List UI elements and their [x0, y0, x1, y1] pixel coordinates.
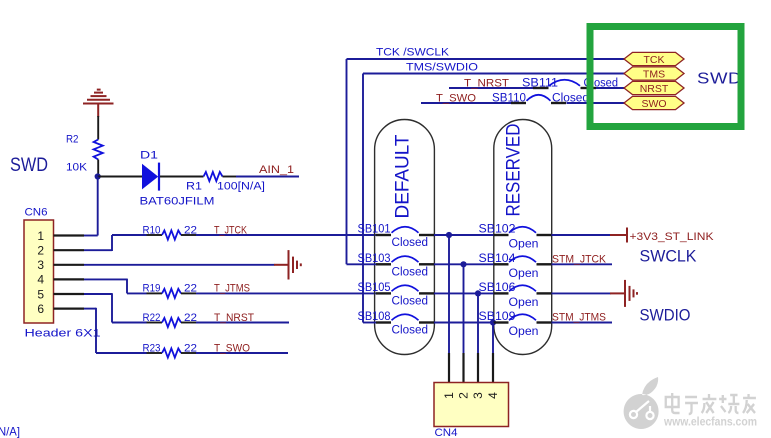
wire TMS/SWDIO riser down to SB108 line — [362, 74, 364, 323]
wire TCK/SWCLK riser down to SB103 line — [346, 59, 348, 264]
svg-text:SB103: SB103 — [358, 253, 391, 265]
svg-text:T_NRST: T_NRST — [464, 77, 509, 89]
wire line4 between bridges — [434, 322, 494, 324]
svg-text:STM_JTMS: STM_JTMS — [552, 312, 606, 324]
svg-text:4: 4 — [37, 273, 44, 287]
wire net TMS/SWDIO horizontal — [363, 73, 626, 75]
wire net AIN_1 — [236, 176, 299, 178]
pin 2 stub of CN6 — [54, 249, 85, 251]
svg-text:SWDIO: SWDIO — [640, 306, 691, 325]
svg-text:R10: R10 — [143, 224, 161, 236]
svg-text:22: 22 — [184, 224, 197, 236]
svg-text:Closed: Closed — [392, 237, 429, 249]
svg-text:SWD: SWD — [10, 154, 48, 176]
resistor R10 lead left — [147, 234, 163, 236]
wire net T_NRST top right — [596, 87, 627, 89]
wire T_SWO left segment — [96, 352, 147, 354]
pin 2 stub of CN4 — [462, 353, 464, 383]
wire T_NRST right segment — [196, 322, 289, 324]
resistor R19 body — [162, 289, 181, 298]
svg-text:SB110: SB110 — [492, 92, 526, 104]
svg-text:SB102: SB102 — [479, 224, 516, 236]
svg-text:5: 5 — [37, 287, 44, 301]
wire line3 between bridges — [434, 292, 494, 294]
resistor R22 lead right — [181, 322, 196, 324]
wire R1 lead right — [223, 176, 237, 178]
wire T_JTCK left segment — [112, 234, 147, 236]
watermark elecfans logo — [624, 377, 659, 429]
svg-text:22: 22 — [184, 283, 197, 295]
wire line2 between bridges — [434, 263, 494, 265]
wire CN6 pin6 horizontal — [84, 308, 96, 310]
watermark chinese characters — [666, 393, 756, 414]
svg-text:SWCLK: SWCLK — [640, 247, 698, 266]
wire CN4 riser 2 blue — [463, 264, 465, 353]
junction on line2 to CN4 pin2 — [460, 261, 466, 267]
svg-text:SB106: SB106 — [479, 282, 516, 294]
wire T_JTCK right segment — [196, 234, 376, 236]
svg-text:R19: R19 — [143, 283, 161, 295]
solder bridge SB104 — [494, 263, 509, 265]
connector CN6 body — [24, 220, 54, 323]
wire node down to CN6 pin 1 — [97, 177, 99, 236]
wire net TCK/SWCLK horizontal — [347, 58, 627, 60]
resistor R10 body — [162, 230, 181, 239]
pin 4 stub of CN4 — [492, 353, 494, 383]
svg-text:R1: R1 — [186, 181, 202, 193]
wire line1 to +3V3 power — [552, 234, 611, 236]
port SWO — [624, 96, 684, 110]
wire pin5 drop to T_NRST line — [111, 293, 113, 322]
svg-text:R22: R22 — [143, 312, 161, 324]
solder bridge SB103 — [376, 263, 391, 265]
svg-text:TCK /SWCLK: TCK /SWCLK — [376, 47, 450, 59]
svg-text:SB101: SB101 — [358, 224, 391, 236]
wire net T_NRST top left — [449, 87, 534, 89]
wire power to R2 — [97, 116, 99, 140]
pin 4 stub of CN6 — [54, 278, 85, 280]
wire CN6 pin4 horizontal — [84, 278, 127, 280]
resistor R19 lead right — [181, 292, 196, 294]
svg-text:SWO: SWO — [641, 98, 666, 110]
wire line3 to ground — [552, 292, 612, 294]
solder bridge SB109 — [494, 321, 509, 323]
svg-text:T_SWO: T_SWO — [436, 92, 476, 104]
svg-text:SB111: SB111 — [522, 77, 558, 89]
svg-text:D1: D1 — [140, 150, 158, 162]
svg-text:1: 1 — [37, 229, 44, 243]
svg-text:R2: R2 — [66, 134, 79, 146]
pin 1 stub of CN4 — [448, 353, 450, 383]
wire line4 from TMS riser to SB108 — [363, 322, 376, 324]
diode D1 — [142, 163, 159, 191]
solder bridge SB108 — [376, 321, 391, 323]
port TMS — [624, 67, 684, 81]
resistor R2 body — [94, 140, 103, 160]
pin 6 stub of CN6 — [54, 308, 85, 310]
svg-text:STM_JTCK: STM_JTCK — [552, 253, 607, 265]
svg-text:TMS: TMS — [643, 68, 665, 80]
svg-text:Open: Open — [509, 297, 539, 309]
svg-text:Closed: Closed — [392, 325, 429, 337]
wire T_JTMS left segment — [127, 292, 147, 294]
svg-text:SB108: SB108 — [358, 311, 391, 323]
power symbol VDD (bar stack) above R2 — [83, 90, 114, 117]
svg-text:22: 22 — [184, 342, 197, 354]
group outline RESERVED — [494, 120, 552, 355]
svg-text:Open: Open — [509, 239, 539, 251]
svg-text:CN4: CN4 — [435, 427, 458, 438]
svg-text:N/A]: N/A] — [0, 425, 20, 438]
svg-text:T_SWO: T_SWO — [214, 342, 250, 354]
annotation green box — [590, 27, 741, 127]
svg-text:+3V3_ST_LINK: +3V3_ST_LINK — [630, 231, 715, 243]
svg-text:2: 2 — [37, 244, 44, 258]
connector CN4 body — [434, 383, 509, 427]
svg-text:T_JTCK: T_JTCK — [214, 224, 248, 236]
wire D1 cathode to R1 — [160, 176, 204, 178]
pin 1 stub of CN6 — [54, 234, 85, 236]
svg-text:Header 6X1: Header 6X1 — [25, 328, 101, 340]
wire line2 from TCK riser to SB103 — [347, 263, 377, 265]
svg-text:BAT60JFILM: BAT60JFILM — [140, 196, 215, 208]
svg-text:T_JTMS: T_JTMS — [214, 283, 250, 295]
wire T_JTMS right segment — [196, 292, 376, 294]
svg-text:NRST: NRST — [640, 83, 669, 95]
wire CN6 pin2 horizontal — [84, 249, 112, 251]
wire CN6 pin3 to ground — [84, 264, 275, 266]
wire net T_SWO top left — [421, 102, 511, 104]
svg-text:10K: 10K — [66, 162, 88, 174]
wire CN6 pin5 horizontal — [84, 293, 112, 295]
wire T_NRST left segment — [112, 322, 147, 324]
svg-text:R23: R23 — [143, 342, 161, 354]
solder bridge SB111 — [533, 87, 549, 89]
svg-text:Open: Open — [509, 268, 539, 280]
wire node to D1 anode — [98, 176, 142, 178]
wire T_SWO right segment — [196, 352, 288, 354]
ground symbol at CN6 pin3 — [274, 250, 301, 279]
junction on line4 to CN4 pin4 — [490, 319, 496, 325]
ground symbol right of SB106 — [610, 280, 637, 307]
group outline DEFAULT — [375, 120, 435, 355]
pin 3 stub of CN6 — [54, 264, 85, 266]
resistor R22 body — [162, 318, 181, 327]
svg-text:TCK: TCK — [644, 54, 665, 66]
svg-text:SB105: SB105 — [358, 282, 391, 294]
solder bridge SB105 — [376, 292, 391, 294]
resistor R23 body — [162, 348, 181, 357]
svg-text:AIN_1: AIN_1 — [259, 164, 294, 176]
wire CN4 riser 4 blue — [492, 323, 494, 354]
wire net T_SWO top right — [567, 102, 627, 104]
pin 5 stub of CN6 — [54, 293, 85, 295]
solder bridge SB101 — [376, 234, 391, 236]
svg-text:www.elecfans.com: www.elecfans.com — [663, 417, 757, 429]
wire line1 between bridges — [434, 234, 494, 236]
resistor R19 lead left — [147, 292, 163, 294]
solder bridge SB106 — [494, 292, 509, 294]
wire pin2 riser to T_JTCK line — [111, 235, 113, 251]
wire pin6 drop to T_SWO line — [95, 308, 97, 353]
svg-text:RESERVED: RESERVED — [503, 124, 525, 217]
solder bridge SB110 — [511, 102, 526, 104]
svg-text:Closed: Closed — [392, 295, 429, 307]
svg-text:3: 3 — [471, 392, 485, 399]
wire CN6 pin1 to node riser — [84, 235, 98, 237]
wire CN4 riser 3 blue — [477, 293, 479, 353]
port TCK — [624, 52, 684, 66]
resistor R22 lead left — [147, 322, 163, 324]
junction node at R2/D1/CN6 pin1 — [95, 173, 101, 179]
svg-text:22: 22 — [184, 312, 197, 324]
svg-text:SB104: SB104 — [479, 253, 517, 265]
solder bridge SB102 — [494, 234, 509, 236]
svg-text:SB109: SB109 — [479, 311, 516, 323]
wire R2 to node — [97, 160, 99, 177]
svg-text:Closed: Closed — [392, 266, 429, 278]
pin 3 stub of CN4 — [477, 353, 479, 383]
junction on line3 to CN4 pin3 — [475, 290, 481, 296]
wire pin4 drop to T_JTMS line — [126, 279, 128, 294]
power tap +3V3_ST_LINK — [610, 228, 627, 243]
svg-text:Closed: Closed — [552, 93, 589, 105]
wire CN4 riser 1 blue — [448, 235, 450, 353]
resistor R1 body — [204, 172, 223, 181]
svg-text:T_NRST: T_NRST — [214, 312, 254, 324]
svg-text:1: 1 — [442, 392, 456, 399]
svg-text:6: 6 — [37, 302, 44, 316]
port NRST — [624, 81, 684, 95]
junction on SWCLK line to CN4 pin1 — [446, 232, 452, 238]
resistor R23 lead left — [147, 352, 163, 354]
svg-text:100[N/A]: 100[N/A] — [217, 181, 265, 193]
svg-text:4: 4 — [486, 392, 500, 399]
svg-text:TMS/SWDIO: TMS/SWDIO — [406, 62, 478, 74]
svg-text:Open: Open — [509, 326, 539, 338]
svg-text:DEFAULT: DEFAULT — [392, 134, 414, 218]
svg-text:3: 3 — [37, 258, 44, 272]
resistor R23 lead right — [181, 352, 196, 354]
svg-text:2: 2 — [457, 392, 471, 399]
resistor R10 lead right — [181, 234, 196, 236]
wire net STM_JTCK stub — [552, 263, 613, 265]
svg-text:SWD: SWD — [697, 71, 742, 88]
svg-text:CN6: CN6 — [25, 207, 48, 219]
wire net STM_JTMS stub — [552, 322, 613, 324]
